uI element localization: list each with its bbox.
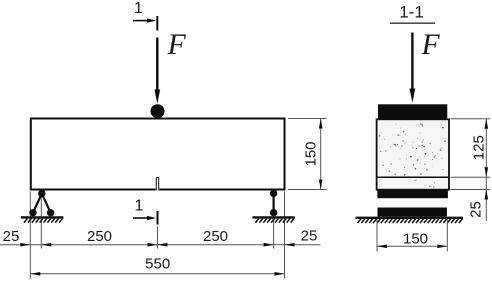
dimension 25 left — [0, 243, 41, 247]
dimension 150 section width: extension lines — [376, 220, 378, 252]
svg-text:550: 550 — [145, 256, 170, 273]
dimension 150 section width: dim line — [377, 245, 447, 249]
dimension 150 beam height: extension lines — [288, 118, 327, 120]
dimension 25 right — [274, 243, 321, 247]
extension line right (beam right corner down) — [284, 192, 286, 279]
loading ball on beam top — [151, 104, 165, 118]
concrete section block — [377, 119, 449, 189]
force F arrow left diagram — [154, 38, 160, 104]
left support ground line — [21, 216, 64, 218]
extension line section bottom (25 dim) — [451, 189, 491, 191]
right support (roller with balls) — [270, 190, 277, 217]
extension line notch level (125/25 dim) — [451, 176, 491, 178]
svg-text:25: 25 — [468, 201, 485, 218]
section mark 1 top: arrow — [133, 18, 156, 22]
section mark 1 bottom: tick — [157, 211, 159, 225]
dimension 150 beam height: dim line — [319, 119, 323, 190]
base bar on ground — [378, 208, 447, 217]
section mark 1 bottom: arrow — [133, 216, 156, 220]
svg-text:125: 125 — [471, 135, 488, 160]
left support ground hatch — [24, 218, 63, 222]
extension line midspan — [157, 227, 159, 249]
svg-text:25: 25 — [3, 228, 20, 245]
right support ground hatch — [256, 218, 295, 222]
dimension 250 left span — [41, 243, 157, 247]
svg-text:1: 1 — [135, 198, 144, 215]
svg-text:25: 25 — [301, 228, 318, 245]
svg-text:1-1: 1-1 — [399, 3, 424, 22]
svg-text:F: F — [167, 29, 187, 61]
svg-text:1: 1 — [134, 0, 143, 17]
ground line right diagram — [356, 217, 464, 219]
svg-text:F: F — [421, 29, 441, 61]
right support ground line — [252, 216, 294, 218]
dimension 125 — [485, 119, 489, 221]
left support (pin with balls) — [29, 190, 54, 217]
bottom plate of specimen — [377, 190, 448, 198]
concrete speckle texture — [379, 121, 446, 187]
dimension 550 — [30, 272, 284, 276]
dimension 250 right span — [158, 243, 274, 247]
extension line left (beam left corner down) — [29, 192, 31, 279]
svg-text:150: 150 — [303, 141, 320, 166]
svg-text:250: 250 — [203, 228, 228, 245]
svg-text:250: 250 — [87, 228, 112, 245]
svg-text:150: 150 — [403, 231, 428, 248]
notch depth line in section — [376, 176, 449, 178]
ground hatch right diagram — [358, 219, 463, 223]
extension line right support center — [273, 196, 275, 249]
beam outline — [31, 119, 285, 190]
extension line section top (125 dim) — [451, 118, 491, 120]
section title underline — [390, 22, 435, 24]
notch at midspan bottom — [156, 178, 160, 191]
force F arrow right diagram — [410, 33, 416, 103]
section mark 1 top: tick — [156, 16, 158, 31]
top loading plate — [378, 104, 447, 119]
extension line left support center — [40, 196, 42, 249]
